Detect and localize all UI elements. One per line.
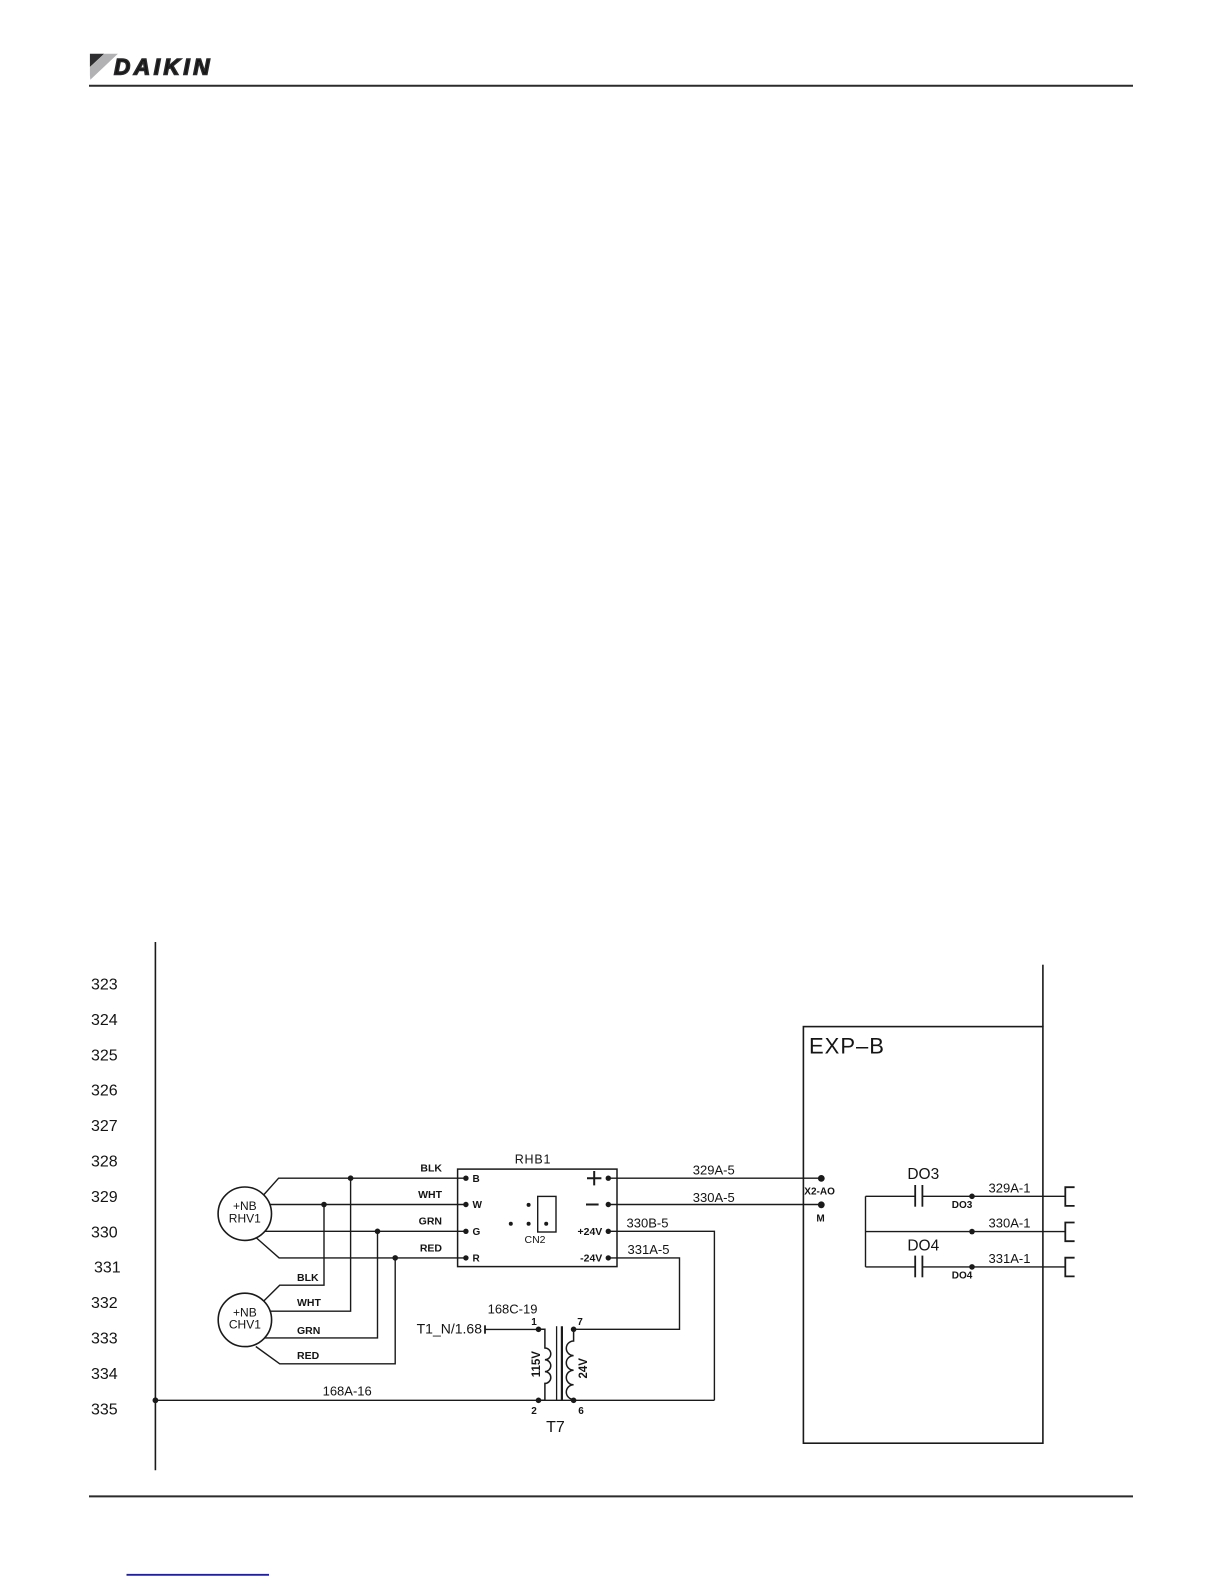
- svg-text:DO4: DO4: [907, 1238, 939, 1255]
- junction on G row: [375, 1229, 381, 1235]
- pin 2: [536, 1398, 542, 1404]
- svg-text:334: 334: [91, 1366, 118, 1383]
- svg-text:1: 1: [531, 1317, 537, 1328]
- svg-text:331: 331: [94, 1260, 121, 1277]
- svg-text:326: 326: [91, 1083, 118, 1100]
- svg-text:332: 332: [91, 1295, 118, 1312]
- junction on W row: [321, 1202, 327, 1208]
- svg-text:115V: 115V: [531, 1351, 543, 1378]
- svg-text:W: W: [473, 1200, 483, 1211]
- svg-text:168A-16: 168A-16: [323, 1383, 372, 1398]
- svg-text:325: 325: [91, 1047, 118, 1064]
- connector bracket 329A-1: [1065, 1187, 1074, 1206]
- terminal G: [463, 1229, 468, 1234]
- contact DO3: [866, 1195, 1066, 1197]
- svg-text:RED: RED: [420, 1242, 443, 1254]
- svg-text:CHV1: CHV1: [229, 1318, 261, 1332]
- wire RHV1 WHT to RHB1 terminal W: [270, 1204, 466, 1206]
- top rule: [89, 85, 1133, 87]
- junction on R row: [392, 1255, 398, 1261]
- svg-text:335: 335: [91, 1401, 118, 1418]
- svg-text:329: 329: [91, 1189, 118, 1206]
- wire 331A-5: [576, 1258, 680, 1329]
- svg-text:X2-AO: X2-AO: [804, 1186, 835, 1197]
- svg-text:331A-5: 331A-5: [628, 1242, 670, 1257]
- node X2-AO: [818, 1175, 825, 1182]
- terminal B: [463, 1176, 468, 1181]
- sensor CHV1: [218, 1293, 271, 1346]
- sensor RHV1: [218, 1187, 271, 1240]
- terminal minus: [606, 1202, 611, 1207]
- svg-text:330A-1: 330A-1: [989, 1216, 1031, 1231]
- wire 330B-5: [608, 1231, 714, 1400]
- connector bracket 331A-1: [1065, 1258, 1074, 1277]
- wire CHV1 BLK up to W row: [264, 1205, 324, 1301]
- svg-text:EXP–B: EXP–B: [809, 1033, 885, 1058]
- svg-text:-24V: -24V: [580, 1253, 602, 1265]
- DO group left bus: [865, 1196, 867, 1267]
- bottom rule: [89, 1495, 1133, 1497]
- daikin logo mark: [90, 54, 118, 80]
- pin 7: [571, 1327, 577, 1333]
- svg-text:CN2: CN2: [524, 1234, 545, 1246]
- connector CN2: [509, 1196, 556, 1246]
- contact DO4: [866, 1266, 1066, 1268]
- svg-text:7: 7: [577, 1317, 583, 1328]
- pin 6: [571, 1398, 577, 1404]
- transformer T7: [531, 1317, 590, 1436]
- terminal plus: [606, 1176, 611, 1181]
- svg-text:329A-5: 329A-5: [693, 1162, 735, 1177]
- wire 168C-19: [485, 1328, 539, 1330]
- left bus wire: [154, 942, 156, 1470]
- svg-text:M: M: [816, 1213, 824, 1224]
- svg-text:DO4: DO4: [952, 1270, 973, 1281]
- wire CHV1 RED up to R row: [256, 1258, 395, 1364]
- primary winding 115V: [539, 1329, 551, 1400]
- terminal T1_N: [484, 1325, 486, 1333]
- svg-text:R: R: [473, 1254, 481, 1265]
- svg-text:DAIKIN: DAIKIN: [114, 54, 213, 79]
- svg-text:330B-5: 330B-5: [627, 1215, 669, 1230]
- wire 329A-5: [608, 1177, 821, 1179]
- svg-text:330: 330: [91, 1224, 118, 1241]
- svg-text:WHT: WHT: [297, 1297, 321, 1309]
- wire 330A-1: [866, 1231, 1066, 1233]
- link underline: [127, 1574, 270, 1576]
- node M: [818, 1201, 825, 1208]
- wire RHV1 GRN to RHB1 terminal G: [265, 1230, 466, 1232]
- core: [556, 1326, 558, 1400]
- wire CHV1 WHT up to B row: [270, 1178, 351, 1311]
- svg-text:168C-19: 168C-19: [488, 1302, 538, 1317]
- svg-text:329A-1: 329A-1: [989, 1180, 1031, 1195]
- svg-text:328: 328: [91, 1154, 118, 1171]
- terminal W: [463, 1202, 468, 1207]
- svg-text:BLK: BLK: [297, 1272, 319, 1284]
- svg-text:RHV1: RHV1: [229, 1211, 261, 1225]
- svg-text:RED: RED: [297, 1350, 320, 1362]
- junction on B row: [348, 1175, 354, 1181]
- connector bracket 330A-1: [1065, 1223, 1074, 1242]
- svg-text:323: 323: [91, 977, 118, 994]
- wire stub above EXP-B: [1042, 965, 1044, 1027]
- terminal +24V: [606, 1229, 611, 1234]
- board RHB1: [458, 1169, 617, 1267]
- svg-text:T7: T7: [546, 1419, 565, 1436]
- svg-text:T1_N/1.68: T1_N/1.68: [417, 1320, 483, 1336]
- wire 168A-16 bottom bus: [155, 1399, 714, 1401]
- svg-text:24V: 24V: [578, 1358, 590, 1379]
- svg-text:2: 2: [531, 1406, 537, 1417]
- svg-text:6: 6: [578, 1406, 584, 1417]
- wire RHV1 BLK to RHB1 terminal B: [264, 1178, 466, 1194]
- svg-text:330A-5: 330A-5: [693, 1190, 735, 1205]
- svg-text:331A-1: 331A-1: [989, 1251, 1031, 1266]
- svg-text:RHB1: RHB1: [515, 1153, 552, 1167]
- wire 330A-5: [608, 1204, 821, 1206]
- secondary winding 24V: [566, 1329, 573, 1400]
- terminal -24V: [606, 1255, 611, 1260]
- svg-text:G: G: [473, 1227, 481, 1238]
- svg-text:GRN: GRN: [297, 1325, 320, 1337]
- svg-text:333: 333: [91, 1331, 118, 1348]
- terminal R: [463, 1255, 468, 1260]
- svg-text:WHT: WHT: [418, 1189, 442, 1201]
- svg-text:DO3: DO3: [952, 1200, 973, 1211]
- svg-text:BLK: BLK: [420, 1162, 442, 1174]
- svg-text:B: B: [473, 1174, 480, 1185]
- wire CHV1 GRN up to G row: [265, 1231, 378, 1338]
- svg-text:+24V: +24V: [577, 1226, 602, 1238]
- svg-text:324: 324: [91, 1012, 118, 1029]
- module EXP-B: [803, 1027, 1043, 1444]
- svg-text:GRN: GRN: [419, 1216, 442, 1228]
- svg-text:DO3: DO3: [907, 1166, 939, 1183]
- wire RHV1 RED to RHB1 terminal R: [256, 1237, 466, 1258]
- pin 1: [536, 1327, 542, 1333]
- svg-text:327: 327: [91, 1118, 118, 1135]
